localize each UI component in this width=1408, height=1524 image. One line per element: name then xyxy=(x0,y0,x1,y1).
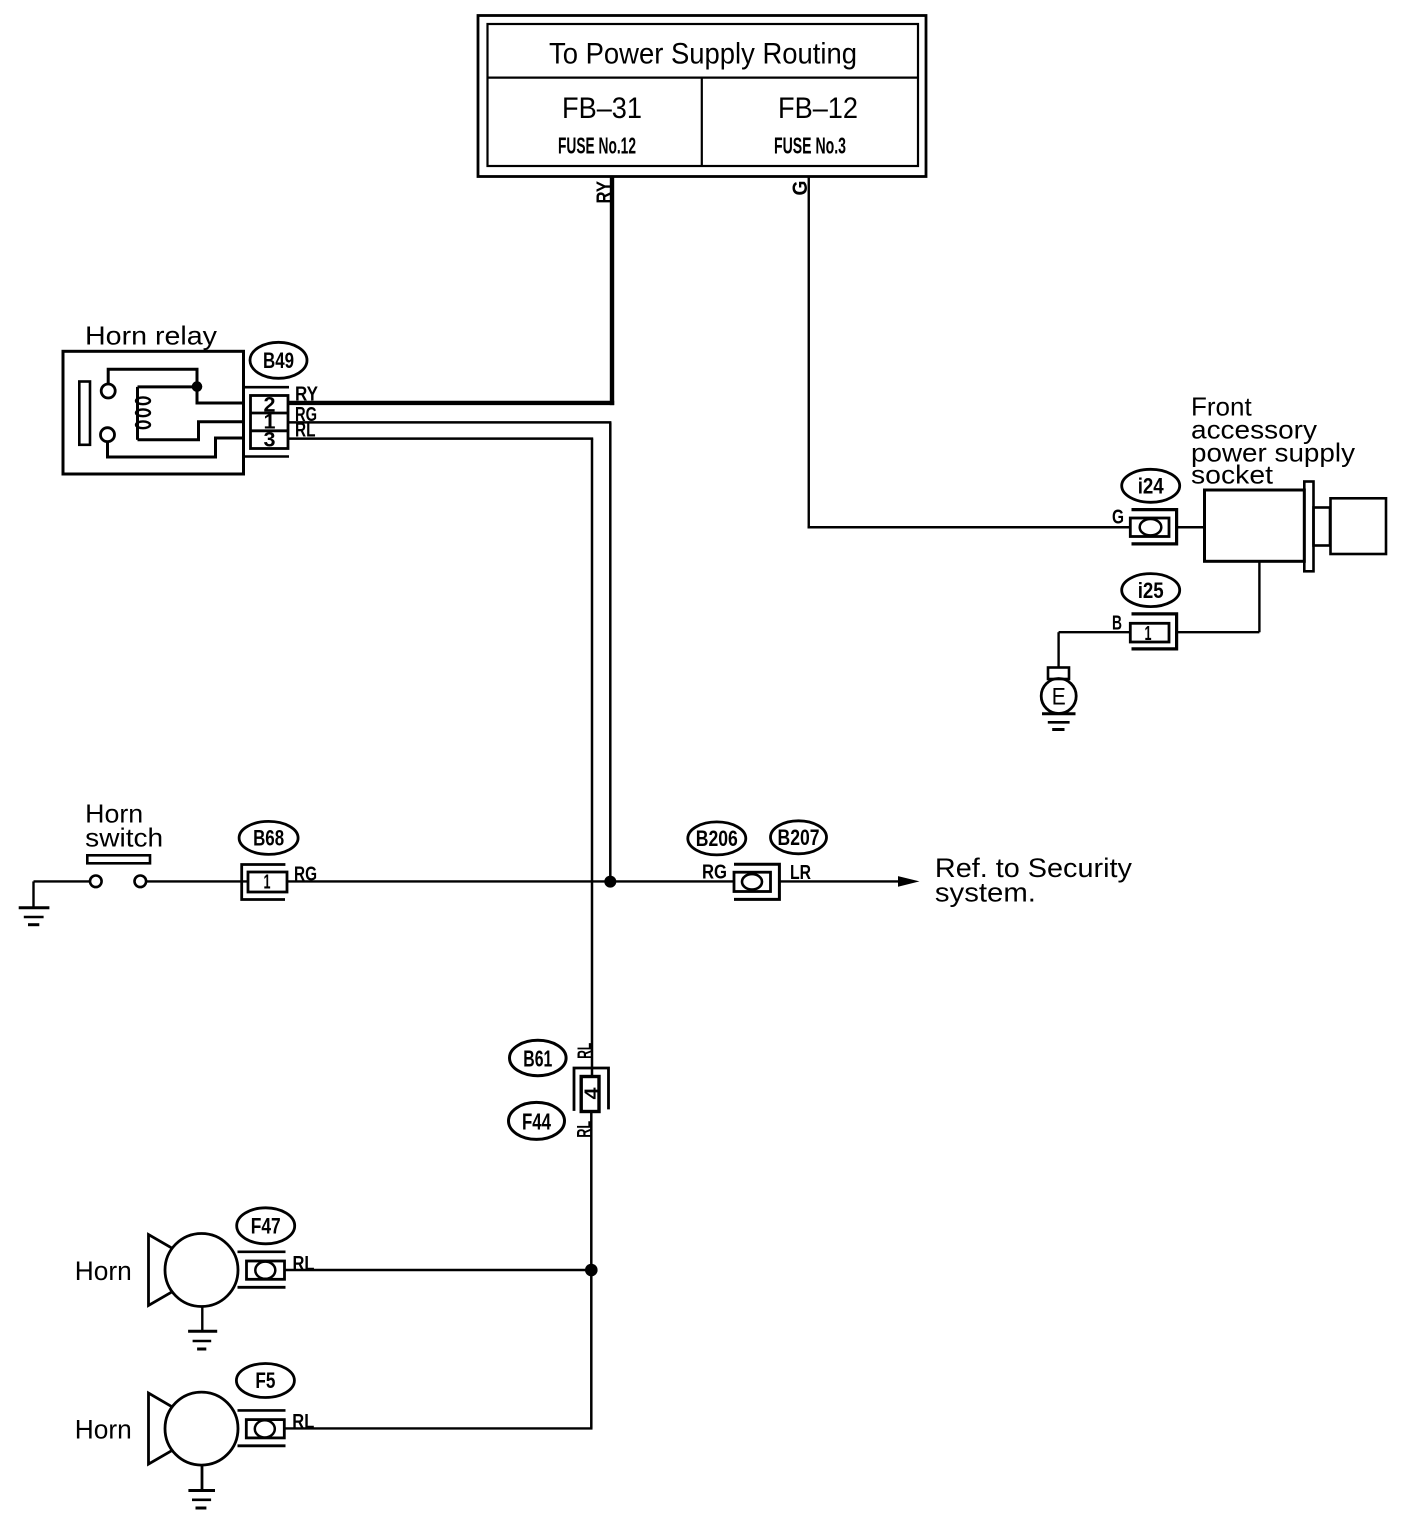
horn 1 ground riser xyxy=(201,1307,203,1332)
power socket flange xyxy=(1304,482,1313,572)
wire RG vertical down to horn switch row xyxy=(609,422,612,881)
connector B206 B207 shell xyxy=(734,864,779,899)
connector F5 pin box xyxy=(246,1420,284,1438)
wire RL vertical upper to connector B61 xyxy=(591,439,594,1075)
horn 1 ground line 2 xyxy=(193,1340,212,1343)
svg-text:i25: i25 xyxy=(1138,578,1164,603)
ground symbol line 1 at horn switch xyxy=(19,906,50,909)
ground E symbol line 3 xyxy=(1052,728,1064,731)
connector B49 pin divider 1 xyxy=(251,412,289,415)
svg-text:B61: B61 xyxy=(523,1045,552,1071)
connector B68 oval xyxy=(239,821,298,854)
arrowhead to security system xyxy=(898,876,920,887)
svg-text:RL: RL xyxy=(574,1121,595,1138)
svg-text:FUSE No.3: FUSE No.3 xyxy=(774,133,846,159)
connector F44 oval xyxy=(509,1102,565,1139)
ground riser at horn switch xyxy=(32,881,34,907)
connector B49 shell bottom line xyxy=(245,455,290,458)
connector i24 pin box xyxy=(1130,518,1169,537)
connector F47 pin box xyxy=(247,1261,285,1279)
svg-text:4: 4 xyxy=(581,1087,603,1100)
connector F5 shell bottom line xyxy=(238,1444,286,1447)
horn 2 mouth trapezoid xyxy=(149,1393,173,1464)
horn 1 mouth trapezoid xyxy=(149,1235,173,1306)
wire B207 to security system arrow xyxy=(780,880,899,882)
connector B206 oval xyxy=(688,822,746,855)
horn relay armature bar xyxy=(79,382,90,445)
wire ground to horn switch xyxy=(34,880,91,882)
svg-text:Horn: Horn xyxy=(75,1256,132,1286)
svg-text:B207: B207 xyxy=(778,825,820,850)
connector B68 shell xyxy=(242,865,286,900)
svg-text:F5: F5 xyxy=(255,1368,275,1393)
connector i25 pin box xyxy=(1130,623,1169,642)
wire i25 to ground E xyxy=(1059,631,1131,633)
connector B206 B207 pin circle xyxy=(742,874,762,889)
svg-text:RL: RL xyxy=(295,419,316,441)
connector i24 oval xyxy=(1122,469,1180,502)
wire RL vertical lower from F44 to horns xyxy=(590,1113,593,1429)
connector F47 pin circle xyxy=(255,1262,275,1279)
wire RG horizontal from relay pin 1 xyxy=(288,421,611,424)
connector B206 B207 pin box xyxy=(734,872,771,891)
horn 2 ground line 3 xyxy=(196,1507,207,1510)
svg-text:Horn relay: Horn relay xyxy=(85,321,217,351)
horn relay coil loop 3 xyxy=(136,421,150,428)
power socket body xyxy=(1205,490,1305,561)
svg-text:F44: F44 xyxy=(522,1108,551,1134)
horn relay coil loop 2 xyxy=(136,409,150,416)
wire horn switch to B68 xyxy=(146,880,248,882)
horn relay coil vertical xyxy=(136,387,139,440)
horn relay wire bottom contact to pin 3 xyxy=(108,438,244,457)
power supply routing box title divider xyxy=(488,76,919,78)
svg-text:E: E xyxy=(1052,684,1066,711)
svg-text:socket: socket xyxy=(1191,460,1274,490)
svg-text:switch: switch xyxy=(85,822,163,852)
wire B68 to B206 xyxy=(287,880,734,882)
connector i25 shell xyxy=(1132,614,1177,649)
power socket knob xyxy=(1331,498,1387,554)
connector F47 oval xyxy=(237,1208,295,1244)
junction dot at horn row xyxy=(585,1264,598,1277)
horn switch bar xyxy=(87,855,150,863)
horn 1 ground line 1 xyxy=(188,1330,217,1333)
horn relay coil loop 1 xyxy=(136,397,150,404)
horn 2 ground line 2 xyxy=(192,1499,211,1502)
svg-text:i24: i24 xyxy=(1138,474,1165,499)
junction dot RG at horn switch row xyxy=(604,876,616,888)
wire G vertical from FB-12 xyxy=(808,177,810,529)
horn relay contact terminal bottom xyxy=(101,428,115,442)
horn 1 ground line 3 xyxy=(197,1348,206,1351)
wire G horizontal to i24 xyxy=(808,526,1132,528)
svg-text:RG: RG xyxy=(702,862,727,884)
ground symbol line 3 at horn switch xyxy=(28,923,39,926)
wire RY horizontal to horn relay pin 2 xyxy=(288,401,614,405)
power supply routing box inner frame xyxy=(488,24,919,166)
horn 2 ground riser xyxy=(201,1465,204,1490)
connector i24 pin circle xyxy=(1140,519,1162,535)
horn 1 body circle xyxy=(165,1234,238,1307)
svg-text:B68: B68 xyxy=(253,826,284,851)
svg-text:1: 1 xyxy=(264,872,271,894)
connector F5 oval xyxy=(236,1364,294,1398)
power socket neck xyxy=(1314,508,1331,546)
wire i24 to socket xyxy=(1177,526,1205,528)
wire RY vertical from FB-31 xyxy=(610,177,614,406)
connector B49 pin divider 2 xyxy=(251,429,289,432)
horn switch contact right xyxy=(135,876,147,888)
svg-text:B49: B49 xyxy=(263,348,294,373)
horn 2 ground line 1 xyxy=(188,1489,215,1492)
horn relay wire contact to pin 2 xyxy=(108,369,243,403)
svg-text:F47: F47 xyxy=(251,1214,281,1239)
wire socket body down xyxy=(1258,561,1260,632)
horn switch contact left xyxy=(90,876,102,888)
connector B49 shell top line xyxy=(245,386,290,389)
svg-text:FB–31: FB–31 xyxy=(562,92,642,125)
horn relay contact terminal top xyxy=(101,384,115,398)
horn relay coil bottom wire to pin 1 xyxy=(138,422,244,440)
wire F47 to junction xyxy=(285,1269,593,1271)
ground symbol line 2 at horn switch xyxy=(24,916,44,919)
connector B207 oval xyxy=(771,821,827,854)
connector B49 pin box xyxy=(251,396,289,449)
connector F5 shell top line xyxy=(238,1409,286,1412)
connector B61 F44 pin box xyxy=(581,1077,599,1112)
svg-text:RY: RY xyxy=(593,181,616,204)
svg-text:B206: B206 xyxy=(696,826,738,851)
svg-text:G: G xyxy=(789,181,812,196)
svg-text:RL: RL xyxy=(575,1043,596,1059)
power supply routing box cell divider xyxy=(701,78,703,166)
connector F5 pin circle xyxy=(255,1420,275,1437)
wire RL horizontal from relay pin 3 xyxy=(288,437,593,440)
svg-text:FB–12: FB–12 xyxy=(778,92,858,125)
svg-text:RL: RL xyxy=(292,1411,314,1433)
svg-text:system.: system. xyxy=(935,878,1036,908)
connector i25 oval xyxy=(1122,574,1180,607)
connector B49 oval xyxy=(250,342,307,378)
ground E symbol line 1 xyxy=(1042,712,1076,715)
power supply routing box outer frame xyxy=(478,16,926,177)
svg-text:Horn: Horn xyxy=(75,1415,132,1445)
svg-text:To Power Supply Routing: To Power Supply Routing xyxy=(549,38,857,71)
svg-text:1: 1 xyxy=(1145,623,1152,645)
connector i24 shell xyxy=(1132,510,1177,544)
ground E circle xyxy=(1041,679,1076,714)
horn 2 body circle xyxy=(165,1392,238,1465)
ground E symbol line 2 xyxy=(1048,721,1070,724)
svg-text:G: G xyxy=(1112,507,1124,529)
ground E terminal box xyxy=(1048,668,1069,680)
wire F5 to vertical xyxy=(285,1427,593,1429)
svg-text:RY: RY xyxy=(295,383,319,405)
wire socket to i25 xyxy=(1177,631,1259,633)
connector F47 shell top line xyxy=(238,1251,286,1254)
svg-text:RL: RL xyxy=(293,1253,315,1275)
horn relay box xyxy=(63,351,244,474)
junction dot inside horn relay xyxy=(192,381,203,392)
svg-text:FUSE No.12: FUSE No.12 xyxy=(558,133,636,159)
horn relay coil top wire to junction xyxy=(138,385,198,388)
wire ground E riser xyxy=(1057,632,1059,668)
connector B61 F44 shell xyxy=(574,1068,609,1111)
svg-text:3: 3 xyxy=(264,428,276,451)
connector F47 shell bottom line xyxy=(238,1286,286,1289)
connector B68 pin box xyxy=(248,872,287,892)
connector B61 oval xyxy=(510,1040,567,1075)
